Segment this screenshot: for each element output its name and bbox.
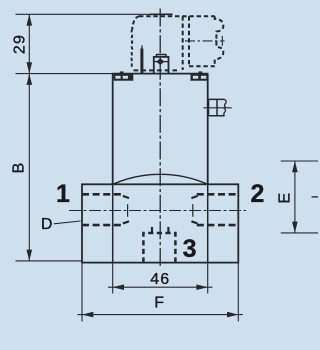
connector plug bottom edge: [134, 69, 178, 71]
right clip bump above cap: [199, 71, 203, 73]
vertical centerline: [159, 9, 161, 267]
port 2 hole bottom dashed: [197, 224, 239, 227]
coil cap top line: [112, 73, 209, 75]
dimension 46 arrow left: [113, 284, 124, 290]
port 3 dashed outline: [143, 233, 175, 263]
extension line base bottom left: [16, 260, 83, 262]
port 3 inner dash left: [151, 227, 153, 232]
dimension 46 arrow right: [196, 284, 207, 290]
port 2 hole top dashed: [197, 193, 239, 196]
svg-text:2: 2: [250, 180, 264, 208]
extension line below body left (46): [112, 263, 114, 294]
svg-text:B: B: [10, 163, 27, 174]
svg-text:29: 29: [11, 34, 28, 54]
right mounting clip: [191, 74, 209, 80]
connector gland bottom edge: [189, 65, 215, 67]
armature dome arc: [113, 174, 208, 184]
extension line below base right (F): [237, 263, 239, 322]
left mounting clip: [114, 74, 134, 80]
nut center tick: [154, 61, 168, 63]
svg-text:3: 3: [183, 235, 197, 263]
base block outline: [82, 184, 238, 262]
svg-text:46: 46: [150, 271, 170, 288]
port 3 inner dash right: [167, 227, 169, 232]
side port divider: [216, 99, 218, 115]
port 1 chamfer top: [123, 196, 129, 198]
dimension 29 arrow up: [27, 14, 33, 25]
manual override nut: [154, 57, 169, 74]
extension line top (29 dim): [16, 13, 161, 15]
svg-text:D: D: [41, 216, 53, 233]
dimension E arrow up: [292, 161, 298, 172]
coil terminal pin: [140, 45, 143, 73]
dimension E arrow down: [292, 222, 298, 233]
dimension 29 line: [28, 14, 30, 73]
extension line below base left (F): [81, 263, 83, 322]
port 1 hole top dashed: [82, 193, 124, 196]
port 2 chamfer bottom: [191, 221, 197, 223]
body width line through base right: [207, 184, 209, 262]
dimension E line: [294, 161, 296, 233]
extension line below body right (46): [207, 263, 209, 294]
dimension B line: [28, 74, 30, 261]
connector gland separation line 1: [182, 16, 184, 70]
svg-text:1: 1: [56, 180, 70, 208]
dimension F line: [78, 314, 243, 316]
dimension B arrow up: [27, 74, 33, 85]
connector plug dashed outline: top edge: [139, 15, 215, 17]
D leader line: [54, 221, 81, 224]
valve body left edge: [112, 74, 114, 184]
svg-text:F: F: [154, 295, 164, 312]
port 2 depth tick: [192, 204, 194, 217]
port 1 chamfer bottom: [123, 221, 129, 223]
body width line through base left: [112, 184, 114, 262]
connector gland centerline: [185, 40, 225, 42]
centerline top cross tick: [150, 13, 173, 15]
side view centerline stub at image edge: [312, 196, 319, 198]
dimension 29 arrow down: [27, 62, 33, 73]
nut center diamond: [156, 58, 164, 65]
E extension line bottom: [281, 232, 318, 234]
extension line at coil top (29/B boundary): [16, 73, 114, 75]
connector gland centerline cross tick: [221, 36, 223, 46]
nut top boss: [156, 55, 166, 57]
port 2 chamfer top: [191, 196, 197, 198]
left clip bump above cap: [120, 71, 124, 73]
dimension B arrow down: [27, 250, 33, 261]
side port break edge: [224, 99, 226, 115]
base horizontal centerline: [69, 210, 246, 212]
connector gland right edge with cable bumps: [215, 16, 224, 64]
dimension F arrow right: [227, 312, 238, 318]
connector plug left edge: [131, 29, 134, 67]
svg-text:E: E: [277, 193, 294, 204]
port 1 hole bottom dashed: [82, 224, 124, 227]
E extension line top: [281, 160, 318, 162]
dimension F arrow left: [82, 312, 93, 318]
side port centerline: [203, 107, 231, 109]
valve body right edge: [207, 74, 209, 184]
port 1 depth tick: [127, 204, 129, 217]
side cable port box: [209, 99, 225, 115]
dimension 46 line: [108, 286, 213, 288]
connector plug top-left corner arc: [132, 16, 139, 29]
connector gland separation line 2: [188, 16, 190, 66]
